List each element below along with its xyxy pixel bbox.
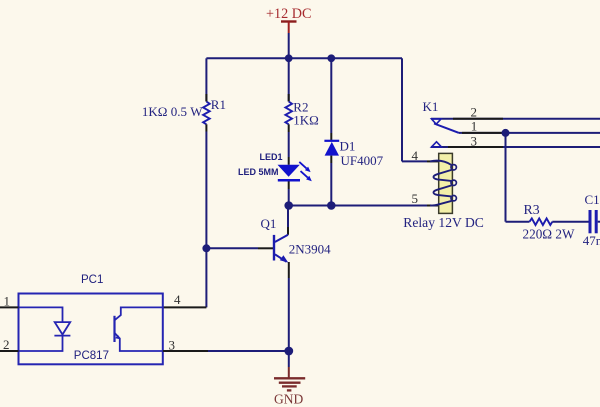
svg-text:LED1: LED1 — [259, 152, 282, 162]
LED1 cathode bar — [278, 179, 300, 182]
PC1 pin 1 — [0, 306, 19, 308]
resistor R3 — [530, 218, 553, 225]
svg-text:LED 5MM: LED 5MM — [238, 167, 279, 177]
capacitor C1 left plate — [589, 210, 592, 233]
svg-text:R3: R3 — [524, 202, 540, 217]
LED1 pin stub bottom — [288, 181, 290, 189]
PC1 internal LED bar — [54, 335, 70, 337]
R1 pin stub bottom — [205, 124, 207, 131]
wire R2 branch upper — [288, 58, 290, 101]
svg-text:1: 1 — [4, 294, 11, 309]
svg-text:5: 5 — [412, 191, 419, 206]
svg-text:1KΩ: 1KΩ — [293, 112, 319, 127]
svg-text:1KΩ 0.5 W: 1KΩ 0.5 W — [142, 104, 203, 119]
PC1 pin 2 — [0, 350, 19, 352]
LED1 pin stub top — [288, 157, 290, 165]
PC1 pin 3 — [163, 350, 208, 352]
resistor R2 — [285, 102, 292, 125]
node R1 / Q1 base — [202, 244, 210, 252]
PC1 internal LED triangle — [55, 322, 70, 334]
svg-text:220Ω 2W: 220Ω 2W — [523, 227, 575, 242]
svg-text:PC817: PC817 — [74, 350, 109, 362]
Q1 base pin stub — [258, 247, 274, 249]
wire C1 right — [598, 221, 600, 223]
D1 pin stub bottom — [330, 156, 332, 163]
relay coil body — [439, 153, 453, 213]
svg-text:4: 4 — [412, 148, 419, 163]
resistor R1 — [203, 102, 210, 125]
relay coil loop 3 — [451, 196, 456, 201]
wire R1 to base node — [205, 132, 207, 308]
wire R3 to C1 — [552, 221, 588, 223]
LED D LED1 triangle — [278, 165, 300, 177]
R1 pin stub top — [205, 94, 207, 102]
svg-text:+12 DC: +12 DC — [266, 6, 311, 22]
PC1 emitter arrowhead — [115, 335, 120, 340]
relay coil loop 1 — [451, 165, 456, 170]
relay pin 5 stub — [427, 205, 439, 207]
transistor Q1 emitter lead — [275, 254, 287, 261]
Q1 emitter pin — [288, 262, 290, 278]
wire collector node to relay pin5 — [289, 205, 427, 207]
wire ground node down — [288, 351, 290, 367]
wire power stem to top bus — [288, 33, 290, 58]
wire D1 to collector node — [330, 163, 332, 206]
svg-text:D1: D1 — [340, 139, 356, 154]
wire snubber to R3 — [506, 221, 530, 223]
diode D1 cathode bar — [324, 140, 339, 142]
ground bar 3 — [282, 385, 297, 387]
PC1 collector lead — [115, 307, 163, 320]
relay contact marker pin 2 — [432, 119, 442, 124]
R2 pin stub top — [288, 94, 290, 102]
ground stem — [288, 367, 290, 378]
LED1 emission arrow a — [299, 162, 310, 172]
relay armature — [434, 124, 459, 133]
relay coil winding — [430, 161, 452, 206]
PC1 pin 4 — [163, 306, 207, 308]
relay contact line pin 1 — [459, 132, 600, 134]
svg-text:2: 2 — [471, 105, 478, 120]
relay coil loop 2 — [451, 180, 456, 185]
wire top bus — [206, 57, 402, 59]
relay pin 3 black segment — [448, 146, 503, 148]
PC1 phototransistor bar — [113, 316, 115, 342]
R2 pin stub bottom — [288, 124, 290, 132]
optocoupler PC1 body — [19, 294, 163, 365]
D1 pin stub top — [330, 133, 332, 141]
svg-text:2: 2 — [3, 337, 10, 352]
Q1 collector pin — [287, 227, 289, 235]
node ground junction — [284, 347, 293, 356]
svg-text:Relay 12V DC: Relay 12V DC — [403, 215, 484, 230]
wire top bus to relay coil — [401, 58, 403, 161]
wire LED1 to collector node — [288, 189, 290, 206]
capacitor C1 right plate — [595, 210, 598, 233]
wire R1 branch upper — [205, 58, 207, 101]
transistor Q1 base bar — [273, 235, 275, 261]
wire D1 branch upper — [330, 58, 332, 133]
svg-text:UF4007: UF4007 — [341, 153, 384, 168]
svg-text:2N3904: 2N3904 — [289, 241, 331, 256]
wire relay pin4 horizontal — [402, 160, 427, 162]
wire emitter to ground node — [288, 278, 290, 351]
wire snubber vertical — [505, 133, 507, 222]
relay pin 1 black segment — [462, 132, 503, 134]
power symbol stem — [288, 22, 290, 34]
svg-text:PC1: PC1 — [81, 274, 103, 286]
svg-text:C1: C1 — [585, 192, 600, 207]
PC1 emitter lead — [115, 333, 163, 351]
svg-text:Q1: Q1 — [261, 216, 277, 231]
power symbol bar — [281, 20, 297, 22]
PC1 internal anode rail — [19, 307, 63, 322]
svg-text:GND: GND — [274, 392, 303, 407]
node top bus / D1 branch — [327, 54, 335, 62]
svg-text:47nF: 47nF — [583, 233, 600, 248]
svg-text:3: 3 — [471, 133, 478, 148]
wire Q1 base — [206, 247, 258, 249]
ground bar 1 — [274, 377, 305, 379]
node pin1 line / snubber — [502, 129, 510, 137]
svg-text:4: 4 — [174, 292, 181, 307]
node collector / D1 — [327, 201, 336, 210]
LED1 emission arrow b — [301, 171, 312, 181]
relay contact line pin 3 — [431, 146, 600, 148]
ground bar 4 — [287, 389, 292, 391]
transistor Q1 collector lead — [275, 235, 288, 242]
diode D1 triangle — [325, 142, 339, 156]
PC1 internal cathode rail — [19, 336, 63, 351]
svg-text:1: 1 — [471, 119, 478, 134]
Q1 emitter arrowhead — [280, 255, 289, 262]
wire collector vertical — [287, 206, 289, 228]
relay pin 4 stub — [427, 160, 439, 162]
node top bus / R2 branch — [285, 54, 293, 62]
svg-text:R1: R1 — [211, 97, 226, 112]
ground bar 2 — [279, 382, 301, 384]
relay contact marker pin 3 — [432, 142, 442, 147]
svg-text:K1: K1 — [423, 99, 439, 114]
node collector / LED1 — [284, 201, 293, 210]
relay contact line pin 2 — [431, 118, 600, 120]
wire PC1 pin3 to ground node — [208, 350, 289, 352]
wire R2 to LED1 — [288, 132, 290, 157]
relay pin 2 black segment — [453, 118, 503, 120]
